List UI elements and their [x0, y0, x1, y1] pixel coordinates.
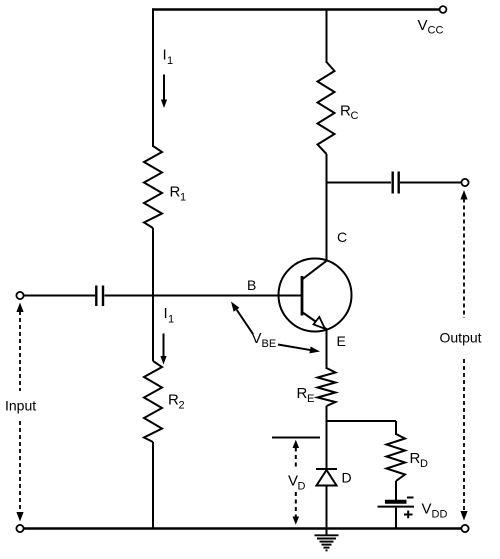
wire output right segment [400, 182, 462, 184]
svg-text:V: V [422, 501, 432, 518]
wire ground rail (bottom) [23, 527, 462, 529]
svg-text:2: 2 [179, 400, 185, 412]
terminal input bottom [16, 525, 23, 532]
terminal input top [16, 292, 23, 299]
transistor Q1 base bar [301, 276, 304, 316]
measurement arrow Vd upper [293, 440, 300, 467]
svg-text:D: D [298, 481, 306, 493]
svg-text:BE: BE [262, 338, 277, 350]
svg-text:D: D [342, 470, 352, 486]
wire Rd branch upper [395, 421, 397, 435]
pointer arrow Vbe to emitter [278, 345, 320, 354]
capacitor input coupling [96, 286, 103, 307]
wire output left segment [327, 182, 392, 184]
svg-text:DD: DD [432, 509, 448, 521]
svg-text:R: R [170, 184, 181, 201]
label battery minus [407, 497, 414, 499]
wire left branch upper [152, 8, 154, 147]
svg-text:B: B [247, 277, 256, 293]
wire left branch lower [152, 442, 154, 528]
wire Rd to battery [395, 481, 397, 500]
svg-text:R: R [297, 385, 308, 402]
svg-text:D: D [420, 458, 428, 470]
svg-text:E: E [307, 393, 314, 405]
terminal output top [461, 179, 468, 186]
resistor R2 [144, 361, 162, 442]
battery Vdd positive plate [378, 506, 415, 508]
wire Vcc top rail [153, 8, 440, 10]
current arrow I1 (lower) [160, 334, 166, 365]
svg-text:1: 1 [167, 55, 173, 67]
annotation arrow input upper [16, 303, 23, 392]
svg-text:V: V [288, 473, 298, 490]
svg-text:E: E [337, 333, 346, 349]
transistor Q1 circle [279, 259, 352, 332]
wire Rc branch from rail [326, 10, 328, 64]
transistor Q1 emitter stroke [302, 312, 327, 330]
terminal Vcc [440, 6, 447, 13]
resistor R1 [144, 146, 162, 228]
label battery plus [404, 511, 413, 519]
pointer arrow Vbe to base [231, 302, 253, 335]
resistor Rd [387, 434, 406, 481]
terminal output bottom [461, 525, 468, 532]
transistor Q1 collector stroke [302, 261, 327, 280]
svg-text:R: R [410, 450, 421, 467]
transistor Q1 emitter arrowhead [314, 317, 326, 329]
wire base left segment [24, 295, 95, 297]
resistor Rc [318, 62, 335, 154]
annotation arrow input lower [16, 421, 23, 522]
svg-text:C: C [337, 229, 347, 245]
measurement arrow Vd lower [293, 492, 300, 525]
svg-text:R: R [168, 392, 179, 409]
wire diode to rail [326, 486, 328, 529]
wire battery to rail [395, 508, 397, 528]
wire base right segment [105, 295, 302, 297]
wire emitter vertical [326, 330, 328, 370]
current arrow I1 (upper) [161, 75, 167, 109]
capacitor output coupling [393, 172, 399, 194]
svg-text:1: 1 [180, 192, 186, 204]
diode D [316, 469, 337, 486]
svg-text:C: C [351, 110, 359, 122]
svg-text:V: V [418, 17, 428, 34]
resistor Re [318, 368, 336, 406]
measurement tick Vd top [272, 437, 320, 439]
svg-text:1: 1 [168, 314, 174, 326]
svg-text:CC: CC [428, 25, 444, 37]
svg-text:Output: Output [440, 330, 482, 346]
wire emitter to diode [326, 406, 328, 469]
ground symbol [315, 529, 339, 551]
svg-text:R: R [340, 103, 351, 120]
battery Vdd negative plate [385, 500, 407, 504]
wire junction to Rd branch [327, 420, 397, 422]
wire collector vertical [326, 154, 328, 261]
wire left branch middle [152, 228, 154, 361]
annotation arrow output upper [460, 190, 467, 318]
annotation arrow output lower [460, 359, 467, 521]
svg-text:Input: Input [5, 398, 36, 414]
